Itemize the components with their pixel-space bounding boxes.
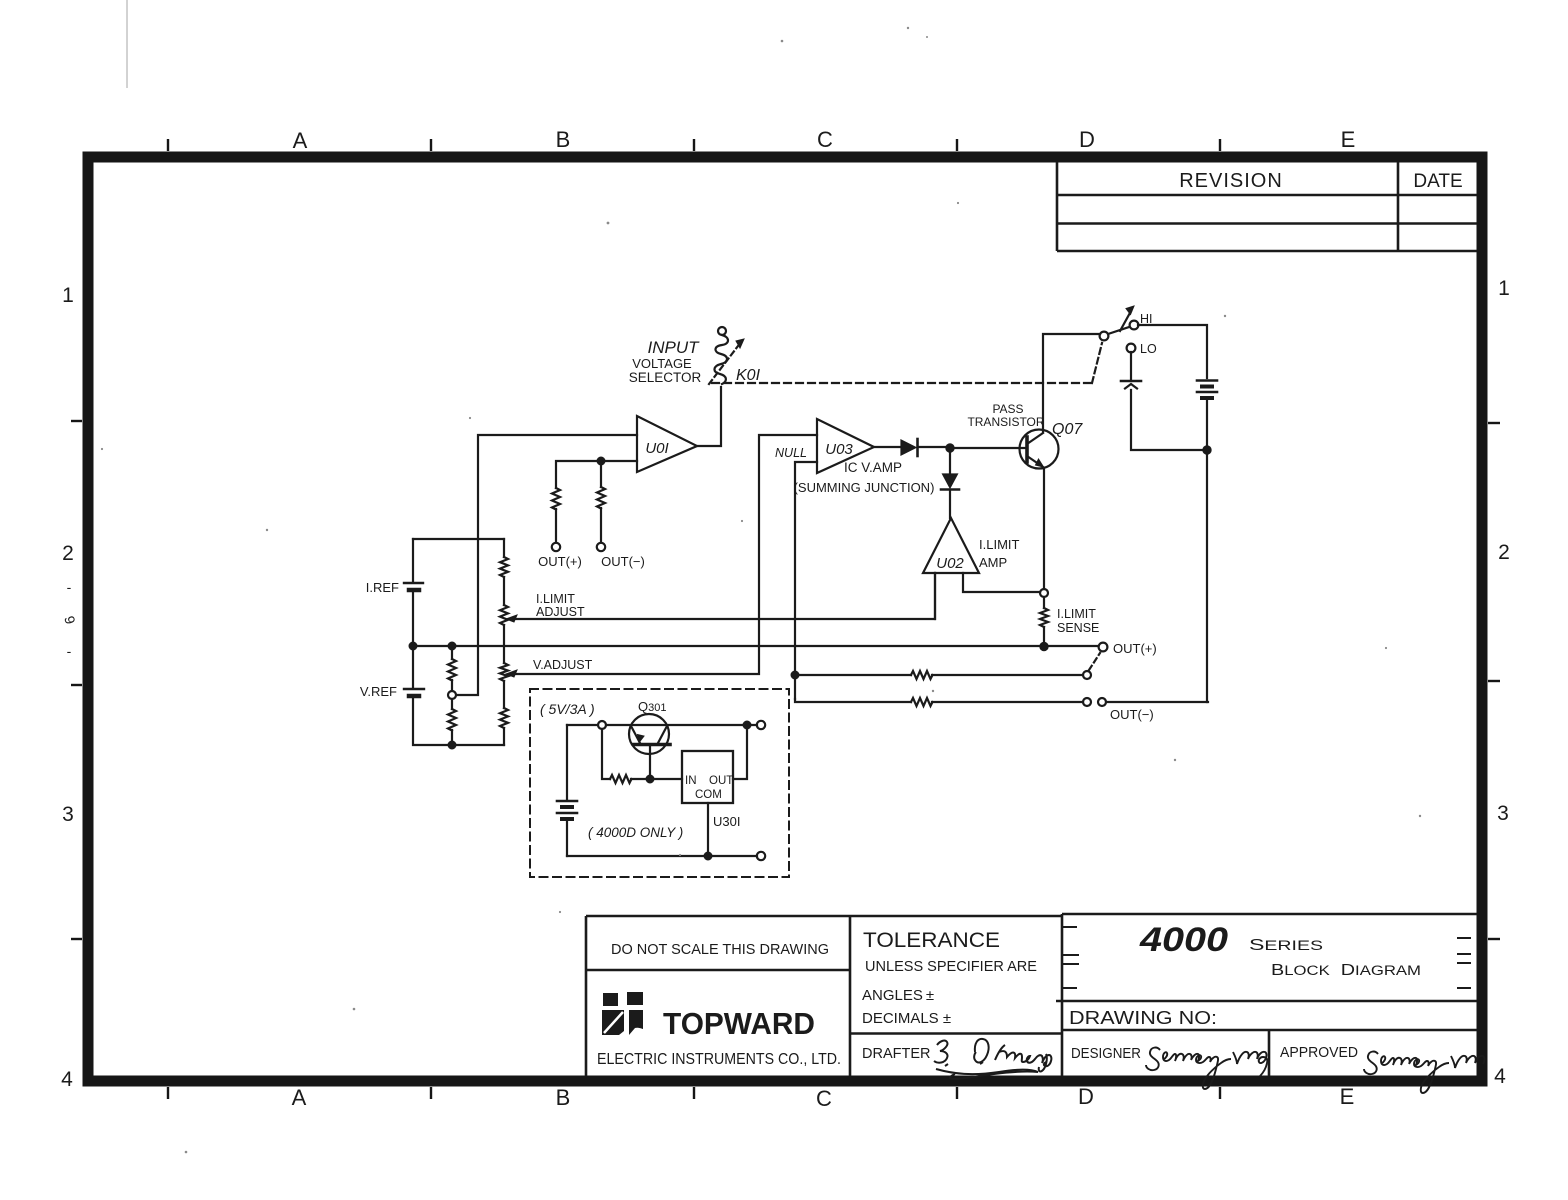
svg-text:DATE: DATE <box>1413 171 1462 192</box>
node OUT(+) output terminal <box>1099 643 1108 652</box>
potentiometer I.LIMIT ADJUST <box>500 605 508 625</box>
switch arm dashed to OUT(+) <box>1089 653 1100 670</box>
svg-text:IC V.AMP: IC V.AMP <box>844 460 902 475</box>
op-amp U02 I.LIMIT amp <box>923 518 979 573</box>
node rail junction <box>1203 446 1210 453</box>
svg-text:3: 3 <box>1497 802 1509 825</box>
svg-text:OUT: OUT <box>709 775 733 787</box>
wire <box>606 724 757 726</box>
svg-text:BLOCK DIAGRAM: BLOCK DIAGRAM <box>1271 962 1421 979</box>
svg-text:9: 9 <box>61 614 79 626</box>
svg-text:U03: U03 <box>825 441 853 458</box>
svg-text:NULL: NULL <box>775 446 807 460</box>
svg-text:I.LIMIT: I.LIMIT <box>536 592 575 606</box>
wire OUT+ sense line <box>795 674 911 676</box>
wire <box>932 674 1083 676</box>
svg-text:E: E <box>1341 127 1356 152</box>
wire <box>1043 627 1045 643</box>
node mid divider junction <box>448 691 456 699</box>
title block binding ticks <box>1063 927 1471 988</box>
svg-text:APPROVED: APPROVED <box>1280 1045 1358 1061</box>
svg-text:HI: HI <box>1140 312 1153 326</box>
wire Q301 base down <box>649 746 651 779</box>
wire Q07 emitter down <box>1043 468 1045 589</box>
drawing sheet border frame <box>71 139 1500 1099</box>
svg-text:4: 4 <box>61 1068 73 1091</box>
svg-text:OUT(−): OUT(−) <box>1110 707 1154 722</box>
svg-text:-: - <box>67 579 72 595</box>
wire V.ADJUST <box>512 435 817 674</box>
svg-text:AMP: AMP <box>979 555 1007 570</box>
switch common terminal <box>1100 332 1109 341</box>
wire reference bus <box>413 645 1098 647</box>
wire 5V rail top <box>567 724 598 726</box>
svg-text:U0I: U0I <box>645 440 668 457</box>
wire U01 upper input <box>457 435 637 695</box>
svg-text:TRANSISTOR: TRANSISTOR <box>967 415 1044 429</box>
node OUT(-) terminal <box>1098 698 1106 706</box>
wire <box>451 680 453 690</box>
node summing junction <box>792 672 799 679</box>
diode D1 output of U03 <box>874 439 947 456</box>
dashed linkage wire K01 to HI/LO switch <box>712 382 1092 384</box>
resistor OUT- sense left <box>597 487 605 509</box>
svg-text:I.REF: I.REF <box>366 580 399 595</box>
svg-text:3: 3 <box>62 803 74 826</box>
battery LO side <box>1121 381 1141 389</box>
potentiometer V.ADJUST <box>500 663 508 681</box>
node I.LIMIT sense top <box>1040 589 1048 597</box>
svg-text:OUT(−): OUT(−) <box>601 554 645 569</box>
node diode junction <box>946 444 953 451</box>
transistor Q07 pass transistor <box>1020 430 1059 469</box>
svg-text:A: A <box>293 128 308 153</box>
node top terminal <box>757 721 765 729</box>
svg-text:LO: LO <box>1140 342 1157 356</box>
svg-text:( 5V/3A ): ( 5V/3A ) <box>540 701 595 717</box>
op-amp U01 <box>637 416 697 472</box>
svg-text:DRAWING NO:: DRAWING NO: <box>1069 1008 1217 1028</box>
svg-text:DRAFTER: DRAFTER <box>862 1046 930 1062</box>
node base junction <box>647 776 654 783</box>
svg-text:B: B <box>556 127 571 152</box>
node HI terminal <box>1130 321 1139 330</box>
resistor mid divider upper <box>448 659 456 681</box>
wire tap down <box>602 729 610 779</box>
node switch pole <box>1083 671 1091 679</box>
diode D2 to I.LIMIT amp <box>941 451 959 518</box>
node terminal <box>1083 698 1091 706</box>
svg-text:I.LIMIT: I.LIMIT <box>979 537 1020 552</box>
node junction left edge <box>410 643 417 650</box>
svg-text:-: - <box>67 643 72 659</box>
node OUT(+) terminal <box>552 543 560 551</box>
wire <box>451 699 453 709</box>
scan artifact line top left <box>126 0 128 88</box>
svg-text:VOLTAGE: VOLTAGE <box>632 356 692 371</box>
svg-text:OUT(+): OUT(+) <box>538 554 582 569</box>
wire regulator COM down <box>707 803 709 852</box>
svg-text:( 4000D ONLY ): ( 4000D ONLY ) <box>588 825 683 840</box>
svg-text:TOPWARD: TOPWARD <box>663 1006 815 1041</box>
resistor OUT+ sense <box>911 671 933 679</box>
svg-text:DECIMALS ±: DECIMALS ± <box>862 1010 951 1027</box>
wire U03 lower input / summing junction <box>795 462 817 699</box>
svg-text:DO NOT SCALE THIS DRAWING: DO NOT SCALE THIS DRAWING <box>611 941 829 958</box>
svg-text:D: D <box>1078 1084 1094 1109</box>
wire <box>451 730 453 742</box>
svg-text:ELECTRIC INSTRUMENTS CO., LTD.: ELECTRIC INSTRUMENTS CO., LTD. <box>597 1051 841 1068</box>
battery subcircuit <box>557 801 577 819</box>
revision table <box>1057 162 1477 251</box>
node junction mid top <box>449 643 456 650</box>
svg-text:ADJUST: ADJUST <box>536 605 585 619</box>
approved signature Simon Wang <box>1364 1052 1485 1093</box>
transistor Q301 <box>629 714 670 754</box>
switch arrow <box>1120 306 1134 331</box>
switch arm to HI <box>1108 327 1129 334</box>
resistor OUT+ sense left <box>552 488 560 510</box>
svg-text:E: E <box>1340 1084 1355 1109</box>
svg-text:ANGLES ±: ANGLES ± <box>862 987 934 1004</box>
svg-text:TOLERANCE: TOLERANCE <box>863 929 1000 952</box>
relay coil K01 <box>709 327 744 384</box>
title block lines <box>586 914 1477 1076</box>
wire OUT- line <box>795 699 911 702</box>
node COM junction <box>705 853 712 860</box>
reference divider box <box>413 539 504 745</box>
arrowhead V.ADJUST wiper <box>506 670 517 677</box>
svg-text:Q07: Q07 <box>1052 421 1083 438</box>
battery I.REF <box>404 583 423 590</box>
svg-text:SERIES: SERIES <box>1249 937 1323 954</box>
svg-text:DESIGNER: DESIGNER <box>1071 1046 1141 1062</box>
wire junction down <box>600 461 602 487</box>
svg-text:U30I: U30I <box>713 814 740 829</box>
TOPWARD logo mark <box>602 992 643 1035</box>
svg-text:B: B <box>556 1085 571 1110</box>
regulator U301 box <box>682 751 733 803</box>
node LO terminal <box>1127 344 1136 353</box>
wire U01 lower input <box>556 461 637 488</box>
svg-text:K0I: K0I <box>736 367 761 384</box>
svg-text:4000: 4000 <box>1139 921 1228 959</box>
svg-text:A: A <box>292 1085 307 1110</box>
svg-text:V.REF: V.REF <box>360 684 397 699</box>
svg-text:Q301: Q301 <box>638 699 666 714</box>
wire <box>1043 597 1045 608</box>
svg-text:INPUT: INPUT <box>648 338 701 357</box>
wire <box>932 701 1083 703</box>
svg-text:REVISION: REVISION <box>1179 170 1283 192</box>
node junction on bus <box>1040 643 1047 650</box>
node junction at collector <box>744 722 751 729</box>
wire U02 right leg to I.LIMIT sense <box>963 573 1040 592</box>
wire to OUT(-) terminal <box>600 508 602 542</box>
wire K01 to U01 output <box>697 387 721 446</box>
svg-text:OUT(+): OUT(+) <box>1113 641 1157 656</box>
wire OUT(-) to right rail <box>1106 701 1208 703</box>
battery V.REF <box>404 689 424 696</box>
wire I.LIMIT ADJUST <box>512 573 935 619</box>
zone numbers left <box>61 284 74 1091</box>
node junction U01 input <box>598 458 605 465</box>
zone letters top <box>293 127 1356 153</box>
wire U02 left leg to I.LIMIT ADJUST <box>934 573 936 619</box>
svg-text:I.LIMIT: I.LIMIT <box>1057 607 1096 621</box>
svg-text:SELECTOR: SELECTOR <box>629 370 702 385</box>
battery HI side <box>1197 381 1217 399</box>
svg-text:D: D <box>1079 127 1095 152</box>
svg-text:PASS: PASS <box>992 402 1023 416</box>
wire battery to bottom rail <box>1131 390 1204 450</box>
arrowhead I.LIMIT ADJUST wiper <box>506 615 517 622</box>
svg-text:2: 2 <box>62 542 74 565</box>
drafter signature B.Q.Huang <box>934 1039 1051 1079</box>
wire right rail <box>1206 399 1208 702</box>
wire HI to battery rail <box>1138 325 1207 378</box>
wire to OUT(+) terminal <box>555 509 557 542</box>
zone numbers right <box>1494 277 1510 1088</box>
node junction bottom <box>449 742 456 749</box>
node tap junction <box>598 721 606 729</box>
wire mid divider <box>451 649 453 659</box>
label INPUT VOLTAGE SELECTOR <box>629 338 702 385</box>
wire Q07 collector up to switch <box>1043 334 1100 432</box>
svg-text:C: C <box>817 127 833 152</box>
resistor I.LIMIT SENSE <box>1040 608 1048 627</box>
wire to regulator IN <box>631 778 682 780</box>
zone letters bottom <box>292 1084 1355 1111</box>
svg-text:U02: U02 <box>936 555 964 572</box>
svg-text:V.ADJUST: V.ADJUST <box>533 658 593 672</box>
wire LO down <box>1130 352 1132 379</box>
svg-text:4: 4 <box>1494 1065 1506 1088</box>
svg-text:(SUMMING JUNCTION): (SUMMING JUNCTION) <box>794 480 935 495</box>
op-amp U03 <box>817 419 874 473</box>
svg-text:IN: IN <box>685 775 697 787</box>
wire left rail <box>566 725 568 799</box>
pencil marks left margin <box>61 579 79 659</box>
resistor base <box>610 775 632 783</box>
svg-text:2: 2 <box>1498 541 1510 564</box>
node bottom terminal <box>757 852 765 860</box>
designer signature Simon Wang <box>1146 1048 1267 1089</box>
wire bottom rail <box>567 855 757 857</box>
wire junction to Q07 base <box>950 447 1026 449</box>
svg-text:UNLESS SPECIFIER ARE: UNLESS SPECIFIER ARE <box>865 958 1037 975</box>
node OUT(-) terminal <box>597 543 605 551</box>
scan speckles <box>101 27 1421 1153</box>
resistor OUT- sense <box>911 698 933 706</box>
svg-text:COM: COM <box>695 789 722 801</box>
wire regulator OUT <box>733 729 747 779</box>
resistor mid divider lower <box>448 709 456 731</box>
subcircuit dashed enclosure <box>530 689 789 877</box>
svg-text:1: 1 <box>62 284 74 307</box>
resistor divider top right <box>500 557 508 577</box>
resistor divider bottom right <box>500 708 508 728</box>
svg-text:1: 1 <box>1498 277 1510 300</box>
svg-text:C: C <box>816 1086 832 1111</box>
svg-text:SENSE: SENSE <box>1057 621 1099 635</box>
